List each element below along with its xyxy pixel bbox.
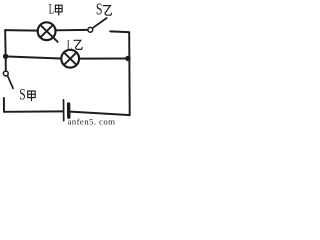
wire middle branch left (node A to lamp L乙) xyxy=(8,57,61,59)
wire lamp L甲 to switch S乙 xyxy=(56,29,88,31)
svg-text:S: S xyxy=(19,87,25,104)
wire top-right stub (switch S乙 right terminal to corner) xyxy=(110,30,129,33)
svg-text:L: L xyxy=(67,37,73,54)
wire top-left horizontal (battery+ to lamp L甲) xyxy=(5,29,38,32)
switch S乙 pivot contact circle xyxy=(88,27,93,32)
label S甲 : character 甲 (drawn path) xyxy=(28,91,36,101)
svg-text:L: L xyxy=(49,0,55,17)
switch S甲 pivot contact circle xyxy=(3,71,8,76)
svg-text:anfen5. com: anfen5. com xyxy=(68,116,116,126)
switch S乙 blade (open, angled up-right) xyxy=(92,18,106,28)
lamp L甲 bulb symbol (circle with X) xyxy=(38,22,58,41)
wire right vertical (full height) xyxy=(128,32,131,115)
node A junction dot (left, middle branch tap) xyxy=(3,54,8,59)
wire bottom-right horizontal (battery to right corner) xyxy=(71,112,130,116)
label S乙 : character 乙 (drawn path) xyxy=(103,6,111,16)
node B junction dot (right, middle branch tap) xyxy=(125,56,130,61)
wire left vertical upper (corner to node A) xyxy=(4,30,6,56)
wire node A down to switch S甲 xyxy=(5,59,7,71)
label L甲 : character 甲 (drawn path) xyxy=(55,5,62,15)
lamp L乙 bulb symbol (circle with X) xyxy=(61,50,79,68)
switch S甲 blade (open, angled down-right) xyxy=(8,76,14,89)
svg-text:S: S xyxy=(96,1,103,19)
wire lower-left stub (switch S甲 bottom terminal to corner) xyxy=(3,98,5,112)
wire bottom-left horizontal (corner to battery long plate) xyxy=(4,110,63,112)
battery B1 negative plate (short thick) xyxy=(67,104,71,117)
wire middle branch right (lamp L乙 to node B) xyxy=(81,58,127,60)
label L乙 : character 乙 (drawn path) xyxy=(74,40,82,49)
battery B1 positive plate (long thin) xyxy=(63,100,65,121)
